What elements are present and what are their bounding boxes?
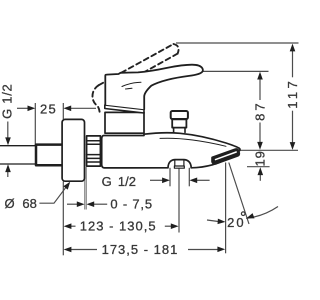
svg-text:87: 87	[252, 100, 267, 120]
svg-text:G 1/2: G 1/2	[0, 84, 15, 119]
svg-text:68: 68	[22, 196, 36, 211]
svg-text:Ø: Ø	[5, 196, 15, 211]
svg-text:117: 117	[285, 78, 300, 109]
svg-text:G 1/2: G 1/2	[102, 174, 136, 189]
svg-text:0 - 7,5: 0 - 7,5	[110, 197, 152, 212]
svg-text:123 - 130,5: 123 - 130,5	[80, 218, 157, 233]
svg-text:19: 19	[253, 150, 268, 166]
svg-text:25: 25	[40, 101, 57, 116]
svg-text:20: 20	[227, 215, 245, 230]
svg-text:173,5 - 181: 173,5 - 181	[102, 242, 179, 257]
